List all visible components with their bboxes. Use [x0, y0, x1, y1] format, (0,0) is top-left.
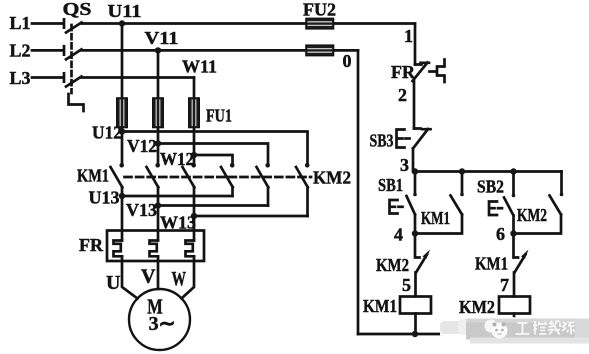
FR thermal actuator symbol [430, 60, 445, 83]
svg-text:KM2: KM2 [376, 255, 409, 275]
svg-text:U11: U11 [108, 1, 142, 21]
svg-text:1: 1 [404, 26, 413, 46]
node V12 [155, 140, 161, 146]
svg-text:L1: L1 [10, 13, 31, 33]
svg-text:KM2: KM2 [459, 297, 495, 317]
terminal dot KM2 aux [560, 193, 564, 197]
fuse FU2 lower [306, 45, 334, 55]
svg-text:SB3: SB3 [370, 131, 394, 151]
switch QS pole 1 [64, 19, 82, 32]
svg-text:U: U [106, 272, 120, 294]
contact KM1 aux NO [415, 172, 462, 234]
switch QS pole 2 [64, 46, 82, 59]
KM1-KM2 linkage dashed [125, 176, 312, 179]
svg-text:KM2: KM2 [313, 168, 351, 188]
wire bottom bus [358, 333, 514, 336]
svg-text:W12: W12 [160, 149, 194, 169]
arrowhead KM1 NC [521, 250, 529, 259]
wire coil KM1 to bus [414, 314, 417, 335]
svg-text:U13: U13 [89, 188, 120, 208]
terminal dot KM1 aux [460, 193, 464, 197]
wire W13 to KM2 right contact bottom [194, 215, 308, 218]
svg-text:0: 0 [343, 51, 352, 71]
svg-text:FU2: FU2 [303, 0, 336, 20]
svg-text:KM1: KM1 [421, 208, 450, 228]
svg-text:7: 7 [500, 275, 509, 295]
FR heater element 1 [114, 241, 123, 257]
svg-text:KM2: KM2 [517, 205, 547, 225]
switch QS linkage [70, 25, 73, 93]
svg-text:KM1: KM1 [77, 166, 109, 186]
coil KM2 [499, 297, 530, 314]
wire V13 to KM2 middle contact bottom [158, 204, 268, 207]
switch QS pole 3 [64, 73, 82, 86]
svg-text:SB1: SB1 [378, 175, 403, 195]
svg-text:5: 5 [402, 275, 411, 295]
wire L2 line [32, 49, 358, 52]
FR heater element 2 [150, 241, 159, 257]
wire L3 line [32, 76, 194, 79]
node W13 [191, 213, 197, 219]
wire node3 rail [415, 170, 562, 173]
svg-text:L2: L2 [10, 41, 31, 61]
svg-text:2: 2 [398, 85, 407, 105]
svg-text:KM1: KM1 [363, 296, 397, 316]
watermark logo panda [485, 320, 508, 339]
contactor KM1 main contact 1 [111, 167, 123, 187]
node W12 [191, 152, 197, 158]
svg-text:3∼: 3∼ [149, 313, 176, 335]
svg-text:V12: V12 [127, 136, 157, 156]
coil KM1 [400, 297, 431, 314]
wire neutral 0 line [357, 50, 360, 334]
contact KM1 NC interlock [514, 234, 526, 273]
svg-text:4: 4 [394, 225, 403, 245]
svg-text:FR: FR [79, 235, 104, 255]
wire node5 [414, 273, 417, 297]
node junction KM1 aux top [459, 168, 465, 174]
contact KM2 aux NO [514, 172, 562, 234]
node U13 [119, 193, 125, 199]
button SB1 actuator [390, 200, 398, 214]
wire control main vertical node1 [414, 24, 417, 65]
terminal dot SB1 [413, 193, 417, 197]
fuse FU1 element 3 [189, 98, 199, 128]
wire node2 [413, 81, 416, 129]
fuse FU2 upper [306, 18, 334, 28]
fuse FU1 element 1 [117, 98, 127, 128]
motor M circle [129, 289, 190, 350]
svg-text:V11: V11 [145, 28, 179, 48]
button SB1 link dash [399, 205, 405, 208]
wire V12 to KM2 middle contact [158, 144, 268, 166]
button SB1 NO [407, 172, 416, 234]
svg-text:V13: V13 [126, 200, 157, 220]
node V13 [155, 202, 161, 208]
watermark text gongkong jiaolian [516, 321, 575, 335]
contact FR NC control [413, 63, 430, 82]
contactor KM1 main contact 2 [147, 167, 159, 187]
wire U13 to KM2 left contact bottom [122, 195, 233, 198]
watermark blur patch [440, 317, 589, 344]
button SB2 NO [504, 172, 514, 234]
terminal dot SB2 [512, 194, 516, 198]
node 4 [412, 230, 418, 236]
contactor KM1 main contact 3 [183, 167, 195, 187]
svg-text:U12: U12 [92, 123, 122, 143]
button SB2 actuator [489, 202, 497, 216]
terminal dots main contacts [119, 163, 124, 168]
arrowhead KM2 NC [423, 250, 431, 259]
node junction SB2 top [510, 168, 516, 174]
wire W12 to KM2 left contact [194, 155, 233, 166]
svg-text:FU1: FU1 [206, 106, 232, 126]
wire V phase column [157, 50, 160, 289]
svg-text:W: W [172, 268, 187, 290]
svg-text:L3: L3 [10, 68, 31, 88]
contactor KM2 main contact 3 [296, 167, 308, 216]
wire L1 line [32, 22, 415, 25]
FR heater element 3 [186, 241, 195, 257]
svg-text:QS: QS [63, 0, 92, 19]
wire U phase column [122, 24, 138, 299]
svg-text:KM1: KM1 [475, 254, 508, 274]
svg-text:W11: W11 [182, 57, 217, 77]
node V11 [155, 47, 161, 53]
button SB2 link dash [498, 207, 504, 210]
switch QS handle [69, 94, 84, 111]
svg-text:V: V [141, 266, 156, 288]
thermal relay FR box [107, 231, 204, 262]
button SB3 link dash [406, 137, 412, 140]
svg-text:FR: FR [391, 62, 416, 82]
wire coil KM2 to bus [513, 314, 516, 335]
node bottom bus [412, 331, 418, 337]
svg-text:SB2: SB2 [477, 177, 504, 197]
fuse FU1 element 2 [153, 98, 163, 128]
button SB3 NC [413, 129, 431, 149]
contactor KM2 main contact 2 [257, 167, 269, 206]
node 3 [412, 168, 418, 174]
svg-text:3: 3 [400, 155, 409, 175]
wire W phase column [182, 78, 195, 299]
contact KM2 NC interlock [415, 234, 427, 273]
node U12 [119, 128, 125, 134]
wire node7 [513, 273, 516, 297]
wire U12 to KM2 right contact [122, 132, 308, 166]
node U11 [119, 20, 125, 26]
svg-text:W13: W13 [160, 213, 196, 233]
contactor KM2 main contact 1 [221, 167, 233, 196]
button SB3 actuator [397, 130, 405, 148]
wire to node3 [412, 149, 415, 172]
node 6 [510, 230, 516, 236]
svg-text:6: 6 [496, 224, 505, 244]
